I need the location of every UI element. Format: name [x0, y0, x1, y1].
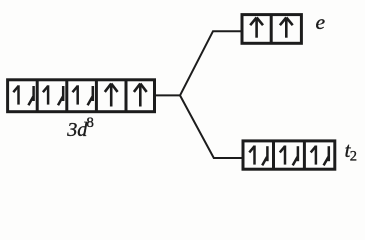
t2 paired electrons cell 2 [280, 146, 298, 166]
t2 paired electrons cell 1 [249, 146, 267, 166]
lower branch to t2 level [180, 95, 244, 158]
cell divider 2 [65, 80, 68, 112]
connector stem from 3d8 row [155, 94, 181, 96]
paired electrons cell 1 [13, 85, 33, 105]
e up electron cell 2 [280, 18, 293, 38]
e up electron cell 1 [250, 18, 263, 38]
svg-text:e: e [316, 10, 326, 34]
cell divider 4 [125, 80, 128, 112]
cell divider 3 [95, 80, 98, 112]
cell divider 1 [36, 80, 39, 112]
paired electrons cell 3 [73, 85, 93, 105]
paired electrons cell 2 [43, 85, 63, 105]
t2 paired electrons cell 3 [311, 146, 329, 166]
upper branch to e level [180, 31, 241, 95]
orbital box row 3d8 (5 cells) [8, 80, 155, 112]
t2 cell divider 1 [272, 141, 275, 169]
t2 level box row (3 cells) [243, 141, 335, 169]
svg-text:2: 2 [350, 148, 357, 164]
e cell divider [270, 15, 273, 44]
svg-text:3d: 3d [66, 119, 88, 141]
t2 cell divider 2 [303, 141, 306, 169]
e level box row (2 cells) [242, 15, 301, 44]
single up electron cell 4 [105, 84, 118, 107]
svg-text:8: 8 [86, 115, 94, 131]
single up electron cell 5 [134, 84, 147, 107]
